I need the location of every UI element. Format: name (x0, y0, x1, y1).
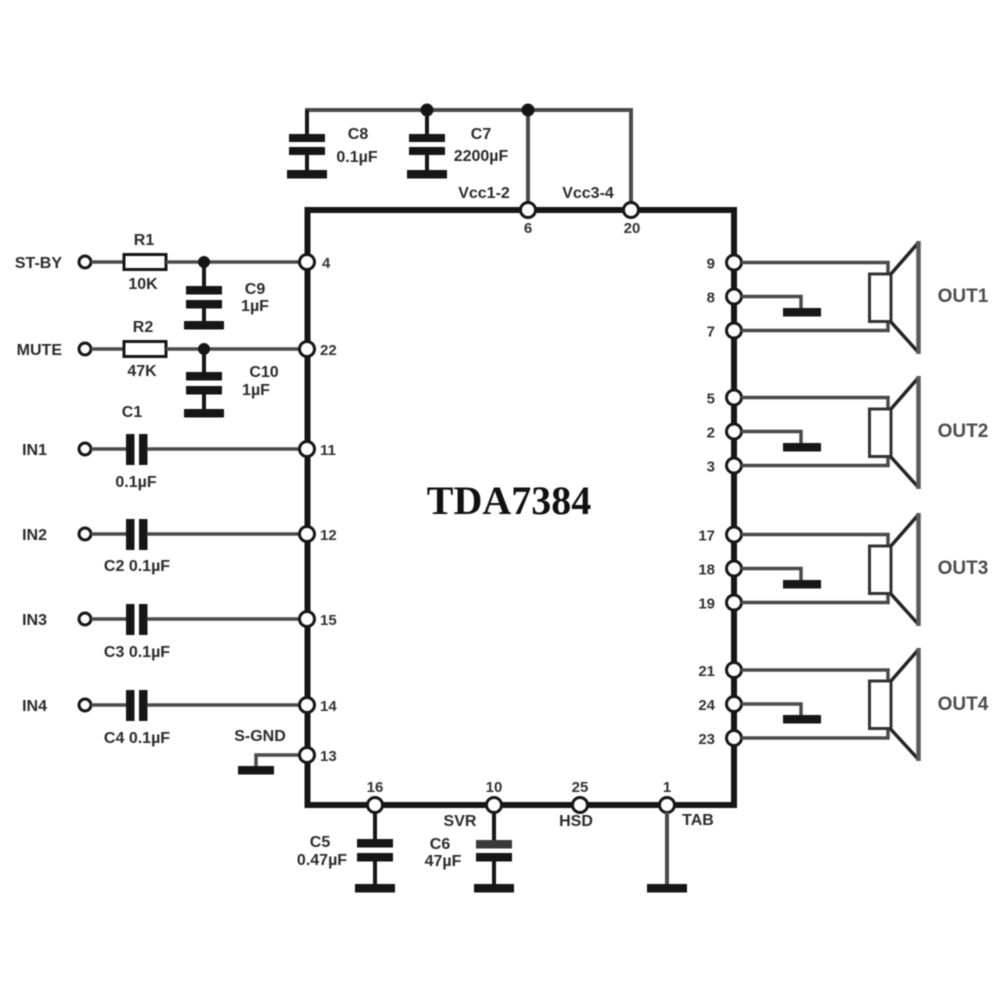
svg-text:IN1: IN1 (22, 442, 47, 459)
svg-text:C7: C7 (471, 126, 492, 143)
pin 14 (300, 698, 338, 716)
wire pin 17 to speaker top (741, 535, 888, 547)
wire C2 to pin 12 (147, 532, 307, 536)
node IN1 terminal (22, 442, 91, 459)
pin 15 (300, 612, 337, 630)
ground C5 (355, 884, 395, 893)
pin 8 (707, 289, 742, 307)
pin 19 (698, 595, 741, 613)
svg-text:23: 23 (698, 731, 715, 748)
svg-text:14: 14 (320, 698, 337, 715)
svg-text:R1: R1 (134, 232, 155, 249)
svg-text:4: 4 (322, 255, 331, 272)
svg-text:IN2: IN2 (22, 527, 47, 544)
pin 17 (698, 527, 741, 545)
node junction C7 top (421, 104, 434, 117)
wire IN4 to C4 (91, 703, 126, 707)
wire pin 2 to ground (741, 432, 801, 445)
svg-text:21: 21 (698, 663, 715, 680)
svg-text:7: 7 (707, 324, 715, 341)
node junction pin6 top (522, 104, 535, 117)
speaker OUT1 (870, 241, 989, 354)
pin 6 (521, 203, 536, 238)
wire top supply rail (307, 110, 631, 206)
svg-text:C3 0.1µF: C3 0.1µF (104, 644, 170, 661)
capacitor C8 0.1uF (289, 110, 378, 171)
svg-text:47µF: 47µF (425, 853, 462, 870)
svg-text:5: 5 (707, 391, 715, 408)
resistor R2 47K (124, 319, 166, 380)
pin 23 (698, 731, 741, 749)
pin 7 (707, 323, 742, 341)
pin 22 (300, 342, 337, 360)
svg-text:TAB: TAB (682, 812, 714, 829)
svg-text:17: 17 (698, 528, 715, 545)
pin 16 (367, 779, 384, 813)
node IN4 terminal (22, 698, 91, 715)
wire pin 9 to speaker top (741, 263, 888, 275)
svg-text:47K: 47K (127, 363, 157, 380)
wire pin 23 to speaker bottom (741, 729, 888, 738)
ground C9 (184, 321, 224, 330)
pin 1 (660, 779, 675, 813)
wire IN3 to C3 (91, 617, 126, 621)
ground OUT1 (783, 308, 821, 317)
wire TAB lead (665, 812, 669, 885)
wire pin 19 to speaker bottom (741, 593, 888, 603)
capacitor C10 1uF (186, 349, 279, 410)
wire R2 to pin 22 (166, 347, 307, 351)
pin 20 (624, 203, 641, 238)
svg-text:C10: C10 (249, 364, 278, 381)
svg-text:25: 25 (572, 779, 589, 796)
svg-text:22: 22 (320, 342, 337, 359)
ground C7 (407, 170, 447, 179)
svg-text:HSD: HSD (559, 813, 593, 830)
wire pin 18 to ground (741, 569, 801, 582)
pin 9 (707, 255, 742, 273)
wire pin 8 to ground (741, 297, 801, 310)
speaker OUT3 (870, 513, 989, 626)
capacitor C1 0.1uF (115, 404, 156, 491)
capacitor C7 2200uF (409, 110, 509, 171)
svg-text:TDA7384: TDA7384 (427, 478, 591, 523)
pin 10 (486, 779, 503, 813)
svg-text:R2: R2 (133, 319, 154, 336)
ground OUT3 (783, 580, 821, 589)
svg-text:11: 11 (320, 442, 336, 459)
ground C6 (474, 884, 514, 893)
svg-text:C5: C5 (310, 834, 331, 851)
wire pin 24 to ground (741, 704, 801, 716)
op-amp U1 TDA7384 IC body (308, 210, 735, 805)
wire ST-BY to R1 (91, 260, 124, 264)
ground S-GND (238, 766, 274, 775)
svg-text:S-GND: S-GND (234, 728, 286, 745)
svg-text:OUT1: OUT1 (938, 286, 989, 307)
speaker OUT2 (870, 376, 989, 489)
svg-text:0.1µF: 0.1µF (336, 149, 377, 166)
wire IN2 to C2 (91, 532, 126, 536)
capacitor C4 0.1uF (104, 690, 170, 747)
wire C1 to pin 11 (147, 447, 307, 451)
pin 12 (300, 527, 337, 545)
svg-text:OUT4: OUT4 (938, 694, 989, 715)
node junction C9 tap (198, 256, 210, 268)
svg-text:OUT3: OUT3 (938, 558, 989, 579)
svg-text:Vcc3-4: Vcc3-4 (562, 185, 614, 202)
svg-text:C6: C6 (430, 836, 451, 853)
wire pin6 lead (526, 110, 530, 206)
pin 24 (698, 697, 741, 715)
svg-text:24: 24 (698, 697, 715, 714)
svg-text:13: 13 (320, 748, 337, 765)
svg-text:8: 8 (707, 290, 715, 307)
pin 18 (698, 561, 741, 579)
svg-text:OUT2: OUT2 (938, 421, 989, 442)
wire MUTE to R2 (91, 347, 124, 351)
capacitor C2 0.1uF (104, 519, 170, 575)
wire pin 21 to speaker top (741, 670, 888, 681)
pin 2 (707, 424, 742, 442)
wire R1 to pin 4 (166, 260, 307, 264)
svg-text:6: 6 (524, 220, 532, 237)
svg-text:10: 10 (486, 779, 503, 796)
capacitor C9 1uF (186, 262, 269, 322)
wire pin 3 to speaker bottom (741, 456, 888, 466)
svg-text:MUTE: MUTE (17, 342, 63, 359)
svg-text:1: 1 (663, 779, 671, 796)
svg-text:12: 12 (320, 527, 337, 544)
svg-text:20: 20 (624, 220, 641, 237)
speaker OUT4 (870, 648, 989, 761)
pin 4 (300, 255, 332, 273)
svg-text:0.1µF: 0.1µF (115, 474, 156, 491)
wire pin 13 to ground (256, 755, 300, 766)
node MUTE terminal (17, 342, 91, 359)
svg-text:C4 0.1µF: C4 0.1µF (104, 730, 170, 747)
svg-text:SVR: SVR (444, 813, 477, 830)
ground OUT4 (783, 715, 821, 724)
svg-text:Vcc1-2: Vcc1-2 (458, 185, 510, 202)
ground C10 (184, 409, 224, 418)
svg-text:0.47µF: 0.47µF (297, 852, 347, 869)
svg-text:C2 0.1µF: C2 0.1µF (104, 558, 170, 575)
node junction C10 tap (198, 343, 210, 355)
pin 3 (707, 458, 742, 476)
wire pin 7 to speaker bottom (741, 321, 888, 331)
wire C4 to pin 14 (147, 703, 307, 707)
svg-text:IN3: IN3 (22, 612, 47, 629)
svg-text:1µF: 1µF (242, 382, 270, 399)
capacitor C5 0.47uF (297, 812, 393, 885)
capacitor C6 47uF (425, 812, 512, 885)
svg-text:18: 18 (698, 562, 715, 579)
svg-text:ST-BY: ST-BY (15, 255, 62, 272)
svg-text:C8: C8 (348, 126, 369, 143)
ground TAB (647, 884, 687, 893)
capacitor C3 0.1uF (104, 604, 170, 661)
ground C8 (287, 170, 327, 179)
svg-text:3: 3 (707, 459, 715, 476)
node IN2 terminal (22, 527, 91, 544)
node ST-BY terminal (15, 255, 91, 272)
svg-text:2200µF: 2200µF (454, 148, 509, 165)
ground OUT2 (783, 443, 821, 452)
svg-text:1µF: 1µF (241, 298, 269, 315)
svg-text:C1: C1 (122, 404, 143, 421)
wire C3 to pin 15 (147, 617, 307, 621)
wire pin 5 to speaker top (741, 398, 888, 410)
svg-text:19: 19 (698, 596, 715, 613)
wire IN1 to C1 (91, 447, 126, 451)
pin 5 (707, 390, 742, 408)
svg-text:IN4: IN4 (22, 698, 47, 715)
pin 13 (300, 748, 337, 766)
node IN3 terminal (22, 612, 91, 629)
pin 21 (698, 663, 741, 681)
svg-text:16: 16 (367, 779, 384, 796)
svg-text:C9: C9 (245, 281, 266, 298)
svg-text:9: 9 (707, 256, 715, 273)
pin 11 (300, 442, 336, 460)
pin 25 (572, 779, 589, 813)
resistor R1 10K (124, 232, 166, 293)
svg-text:15: 15 (320, 612, 337, 629)
svg-text:10K: 10K (128, 276, 158, 293)
svg-text:2: 2 (707, 425, 715, 442)
